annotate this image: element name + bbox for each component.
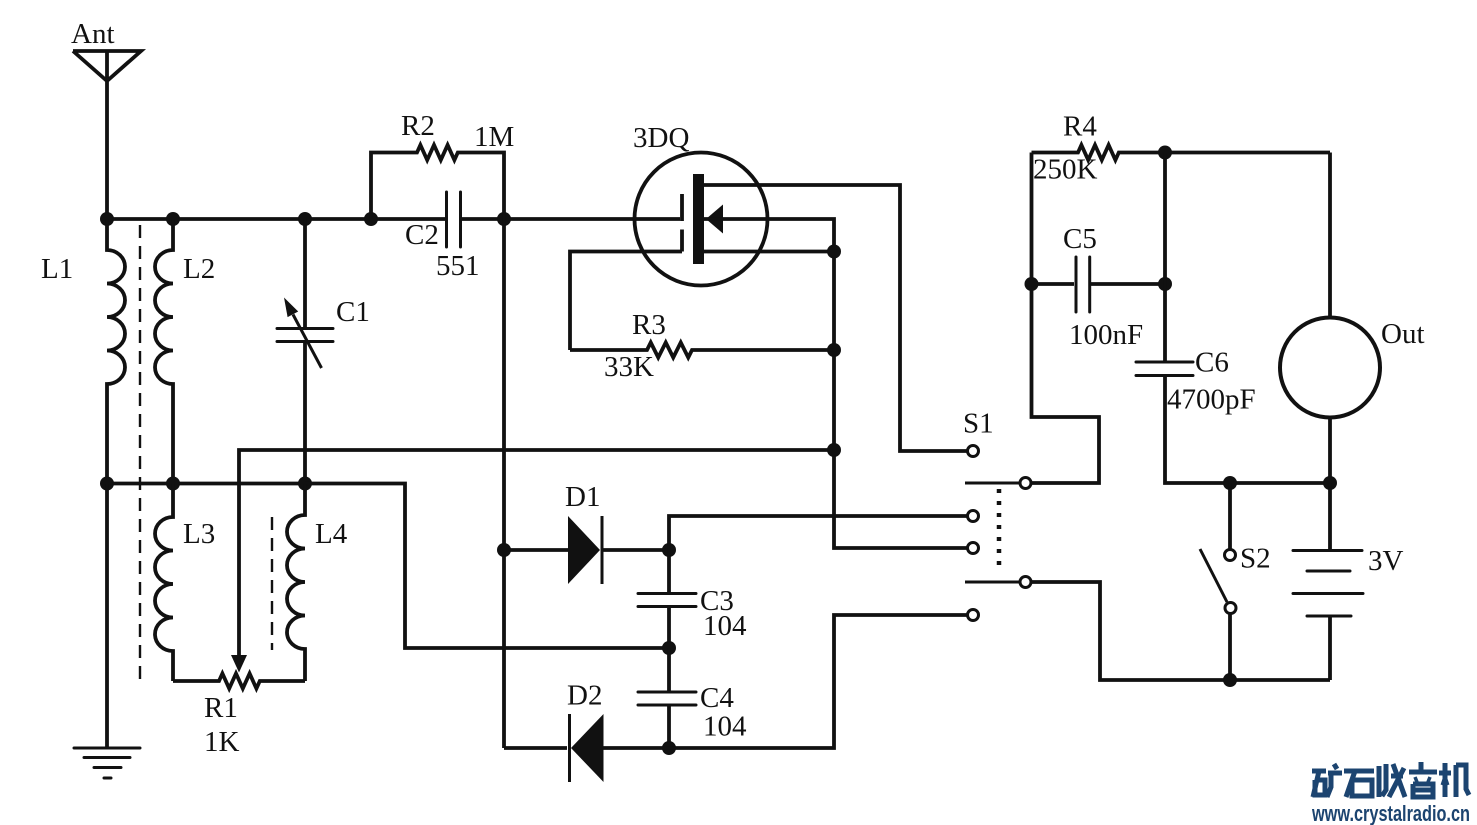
svg-text:551: 551 — [436, 250, 480, 282]
svg-text:1M: 1M — [474, 121, 514, 153]
inductor L2 — [155, 219, 215, 484]
wire R1 wiper to S1 rail — [239, 450, 834, 656]
svg-text:Ant: Ant — [71, 18, 115, 50]
wire S1 pole2 to battery bottom — [1032, 582, 1331, 680]
diode D1 — [504, 481, 669, 584]
node L1 bottom / ground junction — [100, 477, 114, 491]
capacitor C6 — [1136, 153, 1330, 484]
S1 throw contact 3 — [968, 543, 979, 554]
char ji — [1439, 763, 1469, 797]
svg-text:104: 104 — [703, 711, 747, 743]
switch S1 — [963, 408, 1031, 621]
node C1 top junction — [298, 212, 312, 226]
antenna Ant — [71, 18, 141, 219]
svg-text:R2: R2 — [401, 110, 435, 142]
transformer core L4 (dashed) — [271, 517, 273, 650]
svg-text:D2: D2 — [567, 680, 602, 712]
capacitor C3 — [638, 550, 747, 648]
node battery top junction — [1323, 476, 1337, 490]
wire from node C1-bottom to C3 bottom — [305, 484, 669, 649]
svg-text:33K: 33K — [604, 351, 654, 383]
svg-text:L4: L4 — [315, 518, 348, 550]
svg-text:R1: R1 — [204, 692, 238, 724]
potentiometer R1 — [173, 674, 305, 759]
watermark logo (crystalradio) — [1312, 762, 1469, 797]
svg-text:D1: D1 — [565, 481, 600, 513]
svg-text:1K: 1K — [204, 726, 240, 758]
svg-text:C6: C6 — [1195, 347, 1229, 379]
svg-text:R3: R3 — [632, 309, 666, 341]
inductor L1 — [41, 219, 125, 484]
svg-text:4700pF: 4700pF — [1167, 384, 1256, 416]
capacitor C2 — [405, 192, 480, 282]
svg-text:C2: C2 — [405, 219, 439, 251]
resistor R4 — [1032, 111, 1331, 186]
svg-text:S1: S1 — [963, 408, 994, 440]
capacitor C4 — [638, 648, 747, 748]
S1 throw contact 2 — [968, 511, 979, 522]
node D1 anode junction — [497, 543, 511, 557]
node D1 cathode / C3 top junction — [662, 543, 676, 557]
S1 throw contact 1 — [968, 446, 979, 457]
svg-text:L3: L3 — [183, 518, 215, 550]
node R2/C2 right junction — [497, 212, 511, 226]
char shou — [1379, 764, 1405, 797]
svg-text:C1: C1 — [336, 296, 370, 328]
wire transistor arrow lead to x=834 rail and S1 throw 3 — [704, 219, 967, 548]
earphone Out — [1280, 153, 1425, 484]
char kuang — [1312, 764, 1342, 797]
wire C3 top to S1 throw 2 — [669, 516, 967, 550]
svg-text:www.crystalradio.cn: www.crystalradio.cn — [1311, 801, 1470, 825]
node C1 bottom / L4 junction — [298, 477, 312, 491]
resistor R2 — [371, 110, 514, 219]
inductor L3 — [155, 484, 215, 682]
svg-text:3DQ: 3DQ — [633, 122, 689, 154]
node source/rail junction — [827, 245, 841, 259]
wire left bus y=483.5 — [107, 482, 305, 486]
wire transistor source lead — [704, 250, 834, 254]
transformer core L1/L2 (dashed) — [139, 225, 141, 681]
char shi — [1344, 771, 1374, 797]
wire top bus right segment (C2 right plate to gate) — [461, 217, 681, 221]
node wiper-line/rail junction — [827, 443, 841, 457]
S1 throw contact 4 — [968, 610, 979, 621]
wire transistor gate-bottom lead to R3 — [570, 252, 682, 351]
svg-text:C4: C4 — [700, 682, 734, 714]
inductor L4 — [287, 484, 348, 682]
variable capacitor C1 — [277, 219, 370, 484]
svg-text:C5: C5 — [1063, 223, 1097, 255]
char yin — [1415, 777, 1430, 782]
battery 3V — [1293, 483, 1404, 680]
svg-text:R4: R4 — [1063, 111, 1097, 143]
node R2/C2 left junction — [364, 212, 378, 226]
diode D2 — [504, 615, 967, 782]
S1 pole 2 arm — [965, 581, 1019, 584]
svg-text:S2: S2 — [1240, 543, 1271, 575]
node C5 right junction — [1158, 277, 1172, 291]
switch S2 — [1200, 483, 1271, 680]
node R4 / C6 top junction — [1158, 146, 1172, 160]
node antenna/L1 junction — [100, 212, 114, 226]
svg-text:L2: L2 — [183, 253, 215, 285]
S1 pole 1 arm — [965, 482, 1019, 485]
node S2 top junction — [1223, 476, 1237, 490]
svg-text:104: 104 — [703, 610, 747, 642]
svg-text:100nF: 100nF — [1069, 319, 1143, 351]
svg-text:250K: 250K — [1033, 154, 1098, 186]
R1 wiper arrow — [231, 655, 247, 673]
node C4 bottom / D2 junction — [662, 741, 676, 755]
S1 gang link (dotted) — [997, 489, 1002, 571]
node R3/rail junction — [827, 343, 841, 357]
transistor 3DQ — [633, 122, 768, 286]
wire top bus left segment — [107, 217, 447, 221]
node L2 top junction — [166, 212, 180, 226]
node C3/C4 junction — [662, 641, 676, 655]
node C5 left junction — [1025, 277, 1039, 291]
svg-text:L1: L1 — [41, 253, 73, 285]
wire C2-right node down to D1/D2 — [502, 219, 506, 748]
capacitor C5 — [1032, 223, 1166, 351]
resistor R3 — [570, 309, 834, 383]
node L2/L3 junction — [166, 477, 180, 491]
wire transistor drain to S1 throw 1 — [704, 185, 967, 451]
svg-text:Out: Out — [1381, 318, 1425, 350]
wire S1 pole1 to R4/C5 rail — [1032, 153, 1100, 484]
ground — [74, 484, 140, 779]
svg-text:3V: 3V — [1368, 545, 1404, 577]
node S2 bottom junction — [1223, 673, 1237, 687]
